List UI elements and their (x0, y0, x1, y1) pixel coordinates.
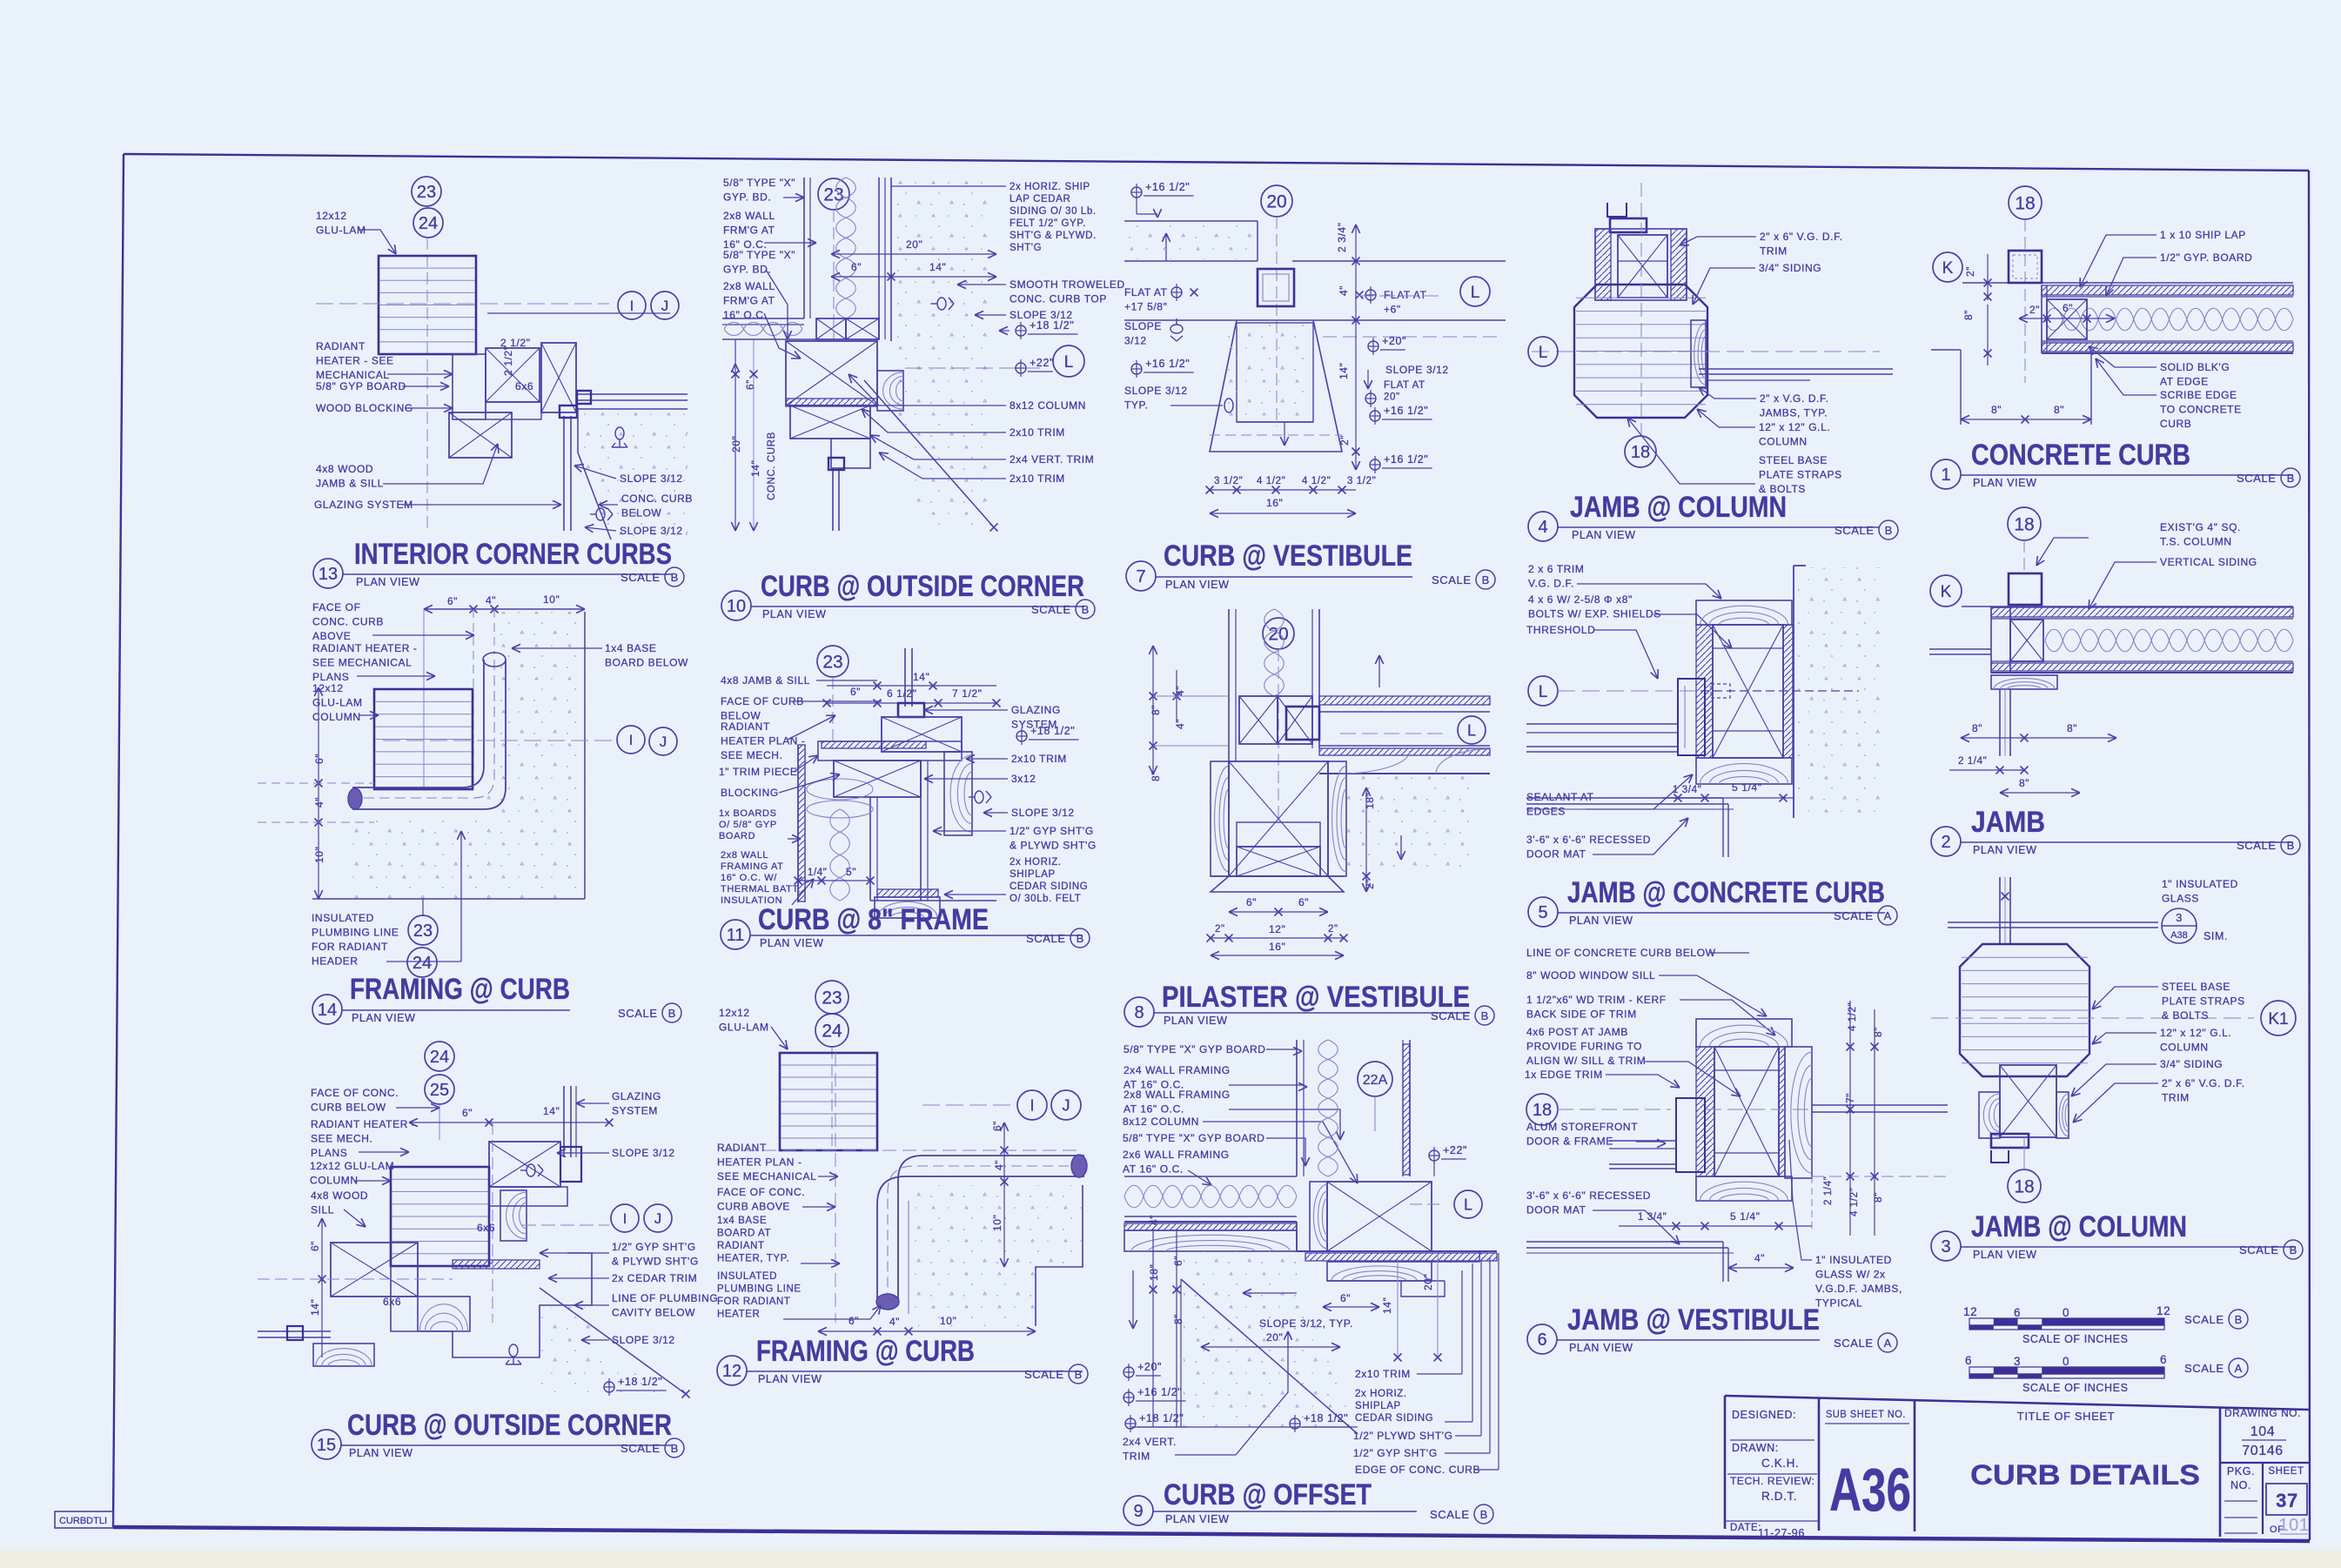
svg-text:SLOPE 3/12: SLOPE 3/12 (612, 1334, 675, 1346)
big column x-box (1327, 1182, 1432, 1251)
L bubble + centerline (905, 367, 1044, 369)
L bubble (1358, 295, 1445, 297)
right dim 18" 2" (1365, 787, 1367, 892)
svg-text:+18 1/2": +18 1/2" (1304, 1412, 1348, 1424)
svg-text:SLOPE 3/12, TYP.: SLOPE 3/12, TYP. (1259, 1317, 1353, 1330)
concrete curb (stippled) below (578, 409, 688, 539)
svg-text:5: 5 (1538, 903, 1547, 922)
svg-text:2" x 6" V.G. D.F.: 2" x 6" V.G. D.F. (2162, 1077, 2245, 1089)
svg-text:SLOPE 3/12: SLOPE 3/12 (620, 472, 683, 485)
svg-text:5/8" TYPE "X" GYP BOARD: 5/8" TYPE "X" GYP BOARD (1123, 1132, 1265, 1144)
svg-text:1/2" GYP. BOARD: 1/2" GYP. BOARD (2160, 251, 2252, 264)
svg-text:FRM'G AT: FRM'G AT (723, 295, 775, 307)
svg-text:18: 18 (2014, 515, 2034, 535)
concrete region (stippled) with step (909, 1185, 1083, 1326)
svg-text:2x4 VERT.: 2x4 VERT. (1123, 1436, 1177, 1448)
svg-text:6": 6" (851, 261, 862, 273)
glazing line going right (576, 393, 688, 395)
svg-text:1x EDGE TRIM: 1x EDGE TRIM (1525, 1069, 1603, 1081)
svg-text:25: 25 (430, 1081, 449, 1100)
svg-text:RADIANT HEATER -: RADIANT HEATER - (312, 642, 418, 654)
svg-text:SCALE: SCALE (1026, 932, 1066, 945)
threshold left (1676, 1098, 1705, 1172)
glazing mullion at corner (563, 416, 565, 531)
svg-text:GLAZING SYSTEM: GLAZING SYSTEM (314, 499, 413, 511)
svg-text:4": 4" (1338, 285, 1350, 296)
svg-text:SHIPLAP: SHIPLAP (1010, 869, 1056, 880)
svg-text:+16 1/2": +16 1/2" (1384, 405, 1428, 417)
svg-text:SLOPE: SLOPE (1124, 320, 1162, 332)
svg-text:12: 12 (722, 1362, 741, 1381)
svg-text:10": 10" (940, 1315, 956, 1327)
svg-text:RADIANT: RADIANT (316, 340, 366, 352)
svg-text:I: I (629, 732, 634, 748)
dashed centerline (1706, 1109, 1810, 1110)
centerlines (1640, 183, 1642, 439)
svg-text:RADIANT HEATER -: RADIANT HEATER - (311, 1118, 416, 1130)
svg-text:2x8 WALL: 2x8 WALL (721, 850, 768, 861)
bottom wood-grain block (1696, 758, 1792, 784)
svg-text:4 1/2": 4 1/2" (1849, 1188, 1860, 1216)
column centerline (426, 238, 428, 531)
svg-text:I: I (1030, 1096, 1034, 1114)
svg-text:PLATE STRAPS: PLATE STRAPS (1759, 469, 1842, 481)
svg-text:6x6: 6x6 (515, 380, 533, 392)
svg-text:4": 4" (889, 1316, 900, 1328)
svg-text:PLAN VIEW: PLAN VIEW (1165, 1513, 1229, 1525)
svg-text:4": 4" (313, 797, 325, 807)
svg-text:18: 18 (1533, 1101, 1552, 1120)
svg-text:COLUMN: COLUMN (2160, 1042, 2209, 1054)
svg-text:I: I (630, 298, 634, 314)
svg-text:10": 10" (543, 593, 560, 606)
svg-text:7: 7 (1136, 567, 1145, 586)
svg-text:PLAN VIEW: PLAN VIEW (1164, 1015, 1227, 1027)
svg-text:B: B (2287, 839, 2295, 852)
svg-text:SLOPE 3/12: SLOPE 3/12 (612, 1147, 675, 1159)
svg-text:4": 4" (1174, 719, 1186, 729)
svg-text:16" O.C.: 16" O.C. (723, 309, 767, 321)
svg-text:2x HORIZ. SHIP: 2x HORIZ. SHIP (1010, 182, 1090, 192)
svg-text:FLAT AT: FLAT AT (1124, 286, 1168, 298)
svg-text:PLAN VIEW: PLAN VIEW (1973, 1249, 2036, 1261)
svg-text:6x6: 6x6 (383, 1296, 401, 1308)
glazing system mullion (vertical) (563, 1086, 565, 1157)
svg-text:HEATER, TYP.: HEATER, TYP. (717, 1254, 789, 1264)
svg-text:5": 5" (846, 866, 856, 878)
glazing system vertical (904, 648, 906, 707)
svg-text:20": 20" (1422, 1274, 1434, 1290)
svg-text:EDGES: EDGES (1526, 806, 1566, 818)
title block frame (1725, 1396, 2310, 1410)
svg-text:SLOPE 3/12: SLOPE 3/12 (1011, 807, 1075, 819)
svg-text:SMOOTH TROWELED: SMOOTH TROWELED (1010, 278, 1125, 291)
top bracket (1607, 203, 1627, 217)
concrete + diagonal slope line (540, 1307, 686, 1392)
svg-text:PLAN VIEW: PLAN VIEW (760, 937, 823, 949)
svg-text:14: 14 (318, 1001, 337, 1020)
pkg no cell (2262, 1463, 2264, 1534)
svg-text:PLAN VIEW: PLAN VIEW (349, 1447, 413, 1459)
svg-text:NO.: NO. (2230, 1479, 2251, 1491)
svg-text:6: 6 (1965, 1354, 1972, 1367)
svg-text:PLAN VIEW: PLAN VIEW (762, 608, 826, 620)
concrete at right of pilaster (1345, 775, 1476, 874)
svg-text:6": 6" (1172, 1256, 1184, 1266)
svg-text:RADIANT: RADIANT (717, 1241, 765, 1251)
svg-text:2x HORIZ.: 2x HORIZ. (1355, 1389, 1407, 1399)
svg-text:CURB DETAILS: CURB DETAILS (1970, 1459, 2200, 1491)
door leaf horizontal lines (1526, 723, 1678, 725)
+22 elevation (1429, 1150, 1439, 1161)
svg-text:& PLYWD SHT'G: & PLYWD SHT'G (1010, 840, 1097, 852)
svg-text:FELT 1/2" GYP.: FELT 1/2" GYP. (1010, 218, 1086, 229)
svg-text:1x4 BASE: 1x4 BASE (605, 642, 657, 654)
left return + x-box (2047, 299, 2087, 339)
right dim chain (1003, 1122, 1005, 1267)
svg-text:SLOPE 3/12: SLOPE 3/12 (1124, 385, 1188, 397)
dashed lines right (1323, 336, 1497, 338)
svg-text:+18 1/2": +18 1/2" (1030, 725, 1075, 737)
svg-text:6: 6 (2014, 1306, 2021, 1319)
svg-text:SHIPLAP: SHIPLAP (1355, 1401, 1401, 1411)
svg-text:STEEL BASE: STEEL BASE (1759, 454, 1828, 466)
svg-text:B: B (2235, 1313, 2243, 1326)
svg-text:A: A (2235, 1362, 2243, 1375)
svg-text:2 1/4": 2 1/4" (1958, 756, 1987, 767)
svg-text:B: B (671, 1442, 679, 1455)
svg-text:4: 4 (1538, 518, 1547, 537)
svg-text:8": 8" (1872, 1192, 1884, 1203)
wall band horizontal (1124, 260, 1258, 262)
svg-text:SCALE: SCALE (620, 1442, 661, 1455)
svg-text:5/8" TYPE "X": 5/8" TYPE "X" (723, 249, 795, 261)
left vertical dim chain w/ rotated labels (734, 339, 736, 531)
svg-text:12x12: 12x12 (312, 682, 344, 694)
svg-text:1 3/4": 1 3/4" (1638, 1212, 1667, 1223)
svg-text:10: 10 (727, 597, 746, 616)
glazing at bottom going down (832, 468, 834, 531)
svg-text:INSULATED: INSULATED (717, 1271, 777, 1282)
svg-text:15: 15 (317, 1436, 336, 1455)
svg-text:12" x 12" G.L.: 12" x 12" G.L. (2160, 1027, 2231, 1039)
band 2 with wood grain (1319, 745, 1490, 747)
svg-text:11-27-96: 11-27-96 (1758, 1527, 1805, 1539)
top wood-grain trim block (1696, 600, 1792, 625)
svg-text:B: B (1482, 573, 1490, 586)
svg-text:3: 3 (1941, 1237, 1950, 1256)
svg-text:VERTICAL SIDING: VERTICAL SIDING (2160, 556, 2257, 568)
pilaster body (1211, 761, 1229, 876)
svg-text:CURB @ OUTSIDE CORNER: CURB @ OUTSIDE CORNER (347, 1409, 672, 1442)
big corner post x-box (786, 341, 877, 405)
svg-text:V.G.D.F. JAMBS,: V.G.D.F. JAMBS, (1815, 1283, 1902, 1295)
svg-text:4 1/2": 4 1/2" (1302, 476, 1331, 486)
svg-text:CEDAR SIDING: CEDAR SIDING (1010, 881, 1088, 892)
svg-text:18: 18 (2015, 194, 2035, 214)
svg-text:2x HORIZ.: 2x HORIZ. (1010, 857, 1062, 868)
svg-text:8": 8" (2019, 777, 2029, 789)
svg-text:CURB BELOW: CURB BELOW (311, 1102, 386, 1114)
door mat lines bottom-left (1526, 1241, 1723, 1243)
svg-text:6x6: 6x6 (477, 1222, 495, 1234)
svg-text:LINE OF CONCRETE CURB BELOW: LINE OF CONCRETE CURB BELOW (1526, 947, 1716, 959)
svg-text:SCRIBE EDGE: SCRIBE EDGE (2160, 389, 2237, 401)
svg-text:SCALE: SCALE (2184, 1313, 2224, 1326)
svg-text:T.S. COLUMN: T.S. COLUMN (2160, 536, 2232, 548)
detail 7 title (1126, 561, 1156, 591)
left wall w/ batt (797, 745, 799, 902)
svg-text:8" WOOD WINDOW SILL: 8" WOOD WINDOW SILL (1526, 969, 1655, 982)
svg-text:2": 2" (2029, 304, 2040, 316)
svg-text:HEATER: HEATER (717, 1310, 760, 1320)
svg-text:3/4" SIDING: 3/4" SIDING (1759, 262, 1821, 274)
grid bubbles 23/24 (408, 915, 438, 945)
bottom paper edge (cream strip) (0, 1552, 2341, 1568)
svg-text:5/8" TYPE "X" GYP BOARD: 5/8" TYPE "X" GYP BOARD (1124, 1043, 1266, 1055)
svg-text:O/ 5/8" GYP: O/ 5/8" GYP (719, 820, 777, 830)
svg-text:+22": +22" (1030, 357, 1054, 369)
svg-text:B: B (1481, 1009, 1489, 1022)
svg-text:I: I (623, 1210, 627, 1227)
svg-text:PLAN VIEW: PLAN VIEW (1572, 529, 1635, 541)
detail 8 title (1124, 997, 1154, 1027)
svg-text:12x12: 12x12 (719, 1007, 750, 1019)
svg-text:8": 8" (1991, 404, 2002, 416)
svg-text:0: 0 (2063, 1355, 2069, 1368)
detail 3 title (1931, 1231, 1961, 1261)
svg-text:CEDAR SIDING: CEDAR SIDING (1355, 1413, 1433, 1424)
svg-text:JAMB @ COLUMN: JAMB @ COLUMN (1971, 1210, 2187, 1243)
svg-text:37: 37 (2276, 1490, 2298, 1511)
svg-text:AT 16" O.C.: AT 16" O.C. (1123, 1163, 1184, 1176)
svg-text:1/4": 1/4" (808, 868, 827, 878)
svg-text:12: 12 (1963, 1305, 1977, 1318)
svg-text:70146: 70146 (2242, 1444, 2284, 1458)
column square (1258, 269, 1294, 306)
svg-text:6": 6" (744, 379, 756, 390)
svg-text:+18 1/2": +18 1/2" (1139, 1412, 1184, 1424)
svg-text:L: L (1539, 344, 1548, 362)
horizontal centerline + section bubbles I/J (316, 303, 609, 305)
jamb assembly below column (1979, 1092, 2000, 1138)
svg-text:DOOR MAT: DOOR MAT (1526, 1204, 1586, 1216)
svg-text:20": 20" (1266, 1331, 1283, 1344)
svg-text:2: 2 (1941, 833, 1950, 852)
detail 10 title (721, 591, 751, 620)
concrete wall edge (1793, 566, 1794, 818)
svg-text:JAMB: JAMB (1971, 806, 2045, 839)
svg-text:SEE MECH.: SEE MECH. (721, 749, 782, 761)
x-hatched plates row (816, 318, 846, 339)
svg-text:14": 14" (749, 460, 761, 477)
svg-text:FRAMING @ CURB: FRAMING @ CURB (756, 1335, 975, 1368)
concrete curb step lines below-left (1931, 349, 1961, 351)
svg-text:AT 16" O.C.: AT 16" O.C. (1124, 1103, 1184, 1116)
svg-text:PLANS: PLANS (311, 1147, 347, 1159)
svg-text:18": 18" (1148, 1264, 1160, 1281)
svg-text:SCALE OF INCHES: SCALE OF INCHES (2022, 1333, 2129, 1345)
left spot elevations (1124, 1367, 1134, 1377)
svg-text:11: 11 (727, 926, 745, 945)
wall structure verticals (1296, 1040, 1298, 1176)
svg-text:JAMBS, TYP.: JAMBS, TYP. (1760, 407, 1828, 419)
svg-text:3: 3 (2014, 1355, 2021, 1368)
svg-text:8": 8" (1150, 771, 1162, 781)
svg-text:PLAN VIEW: PLAN VIEW (1973, 477, 2036, 489)
svg-text:2": 2" (1215, 924, 1225, 935)
svg-text:18": 18" (1364, 793, 1376, 809)
svg-text:AT EDGE: AT EDGE (2160, 376, 2209, 388)
svg-text:10": 10" (313, 847, 325, 863)
svg-text:2" x V.G. D.F.: 2" x V.G. D.F. (1760, 392, 1829, 405)
glu-lam column 12x12 (780, 1053, 877, 1150)
svg-text:FACE OF CONC.: FACE OF CONC. (311, 1087, 399, 1099)
svg-text:FOR RADIANT: FOR RADIANT (312, 941, 388, 953)
svg-text:J: J (1063, 1096, 1070, 1114)
svg-text:PLAN VIEW: PLAN VIEW (758, 1373, 822, 1385)
svg-text:1 3/4": 1 3/4" (1673, 785, 1701, 795)
svg-text:8": 8" (2054, 404, 2064, 416)
svg-text:GLAZING: GLAZING (1011, 704, 1061, 716)
svg-text:4": 4" (1754, 1252, 1765, 1264)
svg-text:A36: A36 (1829, 1456, 1911, 1524)
svg-text:ALUM STOREFRONT: ALUM STOREFRONT (1526, 1121, 1638, 1133)
svg-text:2 x 6 TRIM: 2 x 6 TRIM (1528, 563, 1584, 575)
detail 9 title (1124, 1496, 1153, 1525)
detail 11: CURB @ 8" FRAME (817, 646, 849, 677)
I/J bubbles (922, 1104, 1014, 1106)
svg-text:3'-6" x 6'-6" RECESSED: 3'-6" x 6'-6" RECESSED (1526, 1189, 1651, 1202)
svg-text:4": 4" (1148, 1215, 1160, 1225)
svg-text:EXIST'G 4" SQ.: EXIST'G 4" SQ. (2160, 521, 2241, 533)
svg-text:J: J (661, 298, 669, 314)
wood sill long band (1124, 1230, 1297, 1251)
svg-text:6: 6 (1537, 1330, 1546, 1350)
plates x-boxes (1239, 696, 1278, 744)
svg-text:104: 104 (2250, 1424, 2276, 1439)
detail 15 title (312, 1430, 341, 1459)
detail 14 title (312, 995, 342, 1024)
glazing going right (1812, 1104, 1948, 1106)
svg-text:8: 8 (1134, 1003, 1144, 1022)
svg-text:BOARD: BOARD (719, 831, 755, 841)
svg-text:RADIANT: RADIANT (717, 1142, 767, 1154)
svg-text:PKG.: PKG. (2227, 1465, 2255, 1478)
upper curb outline w/ arrow (1124, 220, 1258, 222)
svg-text:1/2" PLYWD SHT'G: 1/2" PLYWD SHT'G (1353, 1430, 1453, 1442)
svg-text:B: B (1077, 932, 1084, 945)
svg-text:20: 20 (1266, 192, 1286, 212)
svg-text:4": 4" (486, 594, 496, 606)
svg-text:14": 14" (543, 1105, 560, 1117)
jamb head assembly (1595, 229, 1687, 300)
svg-text:12x12 GLU-LAM: 12x12 GLU-LAM (310, 1160, 394, 1172)
svg-text:SLOPE 3/12: SLOPE 3/12 (620, 525, 683, 537)
svg-text:FLAT AT: FLAT AT (1384, 289, 1427, 301)
svg-text:14": 14" (929, 261, 946, 273)
svg-text:GLASS W/ 2x: GLASS W/ 2x (1815, 1269, 1886, 1281)
svg-text:& BOLTS: & BOLTS (2162, 1009, 2209, 1022)
svg-text:6": 6" (850, 686, 861, 698)
glu-lam column 12x12 (379, 256, 476, 354)
svg-text:GLU-LAM: GLU-LAM (316, 224, 366, 237)
22A bubble (1358, 1062, 1392, 1096)
svg-text:10": 10" (991, 1215, 1003, 1231)
svg-text:1/2" GYP SHT'G: 1/2" GYP SHT'G (1353, 1447, 1438, 1459)
svg-text:1" INSULATED: 1" INSULATED (1815, 1254, 1892, 1266)
svg-text:FACE OF CONC.: FACE OF CONC. (717, 1186, 805, 1198)
K bubble + line (1930, 575, 1962, 606)
svg-text:2": 2" (1328, 924, 1338, 935)
svg-text:14": 14" (309, 1299, 321, 1316)
svg-text:6": 6" (462, 1107, 473, 1119)
detail 4 title (1528, 512, 1558, 541)
svg-text:RADIANT: RADIANT (721, 720, 770, 733)
18 bubble (1625, 436, 1656, 467)
svg-text:20": 20" (1384, 392, 1400, 403)
svg-text:R.D.T.: R.D.T. (1761, 1490, 1797, 1503)
svg-text:PLAN VIEW: PLAN VIEW (1569, 915, 1633, 927)
svg-text:COLUMN: COLUMN (1759, 436, 1808, 448)
svg-text:SCALE: SCALE (618, 1007, 658, 1020)
svg-text:CONC. CURB: CONC. CURB (767, 432, 777, 500)
glu-lam column 12x12 (391, 1167, 489, 1266)
svg-text:14": 14" (913, 671, 929, 683)
svg-text:2x10 TRIM: 2x10 TRIM (1010, 472, 1065, 485)
svg-text:14": 14" (1381, 1297, 1393, 1314)
svg-text:1x BOARDS: 1x BOARDS (719, 808, 777, 819)
svg-text:2x10 TRIM: 2x10 TRIM (1011, 753, 1067, 765)
left batt band horizontal (1124, 1185, 1297, 1208)
svg-text:SCALE: SCALE (1024, 1368, 1064, 1381)
slope datum symbol (615, 427, 624, 439)
svg-text:TRIM: TRIM (1760, 245, 1788, 258)
svg-text:SOLID BLK'G: SOLID BLK'G (2160, 361, 2230, 373)
svg-text:ALIGN W/ SILL & TRIM: ALIGN W/ SILL & TRIM (1526, 1055, 1646, 1067)
svg-text:B: B (2287, 472, 2295, 485)
upper wall vertical (1228, 609, 1230, 761)
svg-text:INSULATED: INSULATED (312, 912, 374, 924)
svg-text:101: 101 (2278, 1516, 2309, 1535)
center spot elevation / slope (1290, 1418, 1300, 1429)
K bubble + line (1933, 252, 1962, 282)
svg-text:SCALE: SCALE (1430, 1508, 1470, 1521)
svg-text:8": 8" (1172, 1314, 1184, 1324)
diagonal slope line (864, 380, 994, 527)
svg-text:CONC. CURB TOP: CONC. CURB TOP (1010, 293, 1107, 305)
svg-text:CURB @ 8" FRAME: CURB @ 8" FRAME (758, 903, 989, 936)
svg-text:+18 1/2": +18 1/2" (1030, 319, 1074, 332)
svg-text:12": 12" (1269, 923, 1285, 935)
pilaster base trapezoid (1211, 876, 1344, 892)
svg-text:6": 6" (849, 1315, 859, 1327)
svg-text:CURB @ OUTSIDE CORNER: CURB @ OUTSIDE CORNER (761, 570, 1084, 603)
svg-text:2x8 WALL FRAMING: 2x8 WALL FRAMING (1124, 1089, 1231, 1101)
wall band (1991, 607, 2293, 617)
svg-text:3/12: 3/12 (1124, 335, 1147, 347)
svg-text:1/2" GYP SHT'G: 1/2" GYP SHT'G (1010, 825, 1094, 837)
svg-text:GLU-LAM: GLU-LAM (719, 1022, 769, 1034)
svg-text:6": 6" (309, 1241, 321, 1251)
svg-text:2x4 VERT. TRIM: 2x4 VERT. TRIM (1010, 453, 1094, 466)
svg-text:SCALE: SCALE (1031, 603, 1071, 616)
detail 8: PILASTER @ VESTIBULE (1263, 618, 1294, 649)
big sloped concrete region (1184, 1251, 1358, 1427)
svg-text:JAMB & SILL: JAMB & SILL (316, 478, 384, 490)
svg-text:K: K (1942, 259, 1954, 278)
svg-text:B: B (2290, 1243, 2297, 1256)
